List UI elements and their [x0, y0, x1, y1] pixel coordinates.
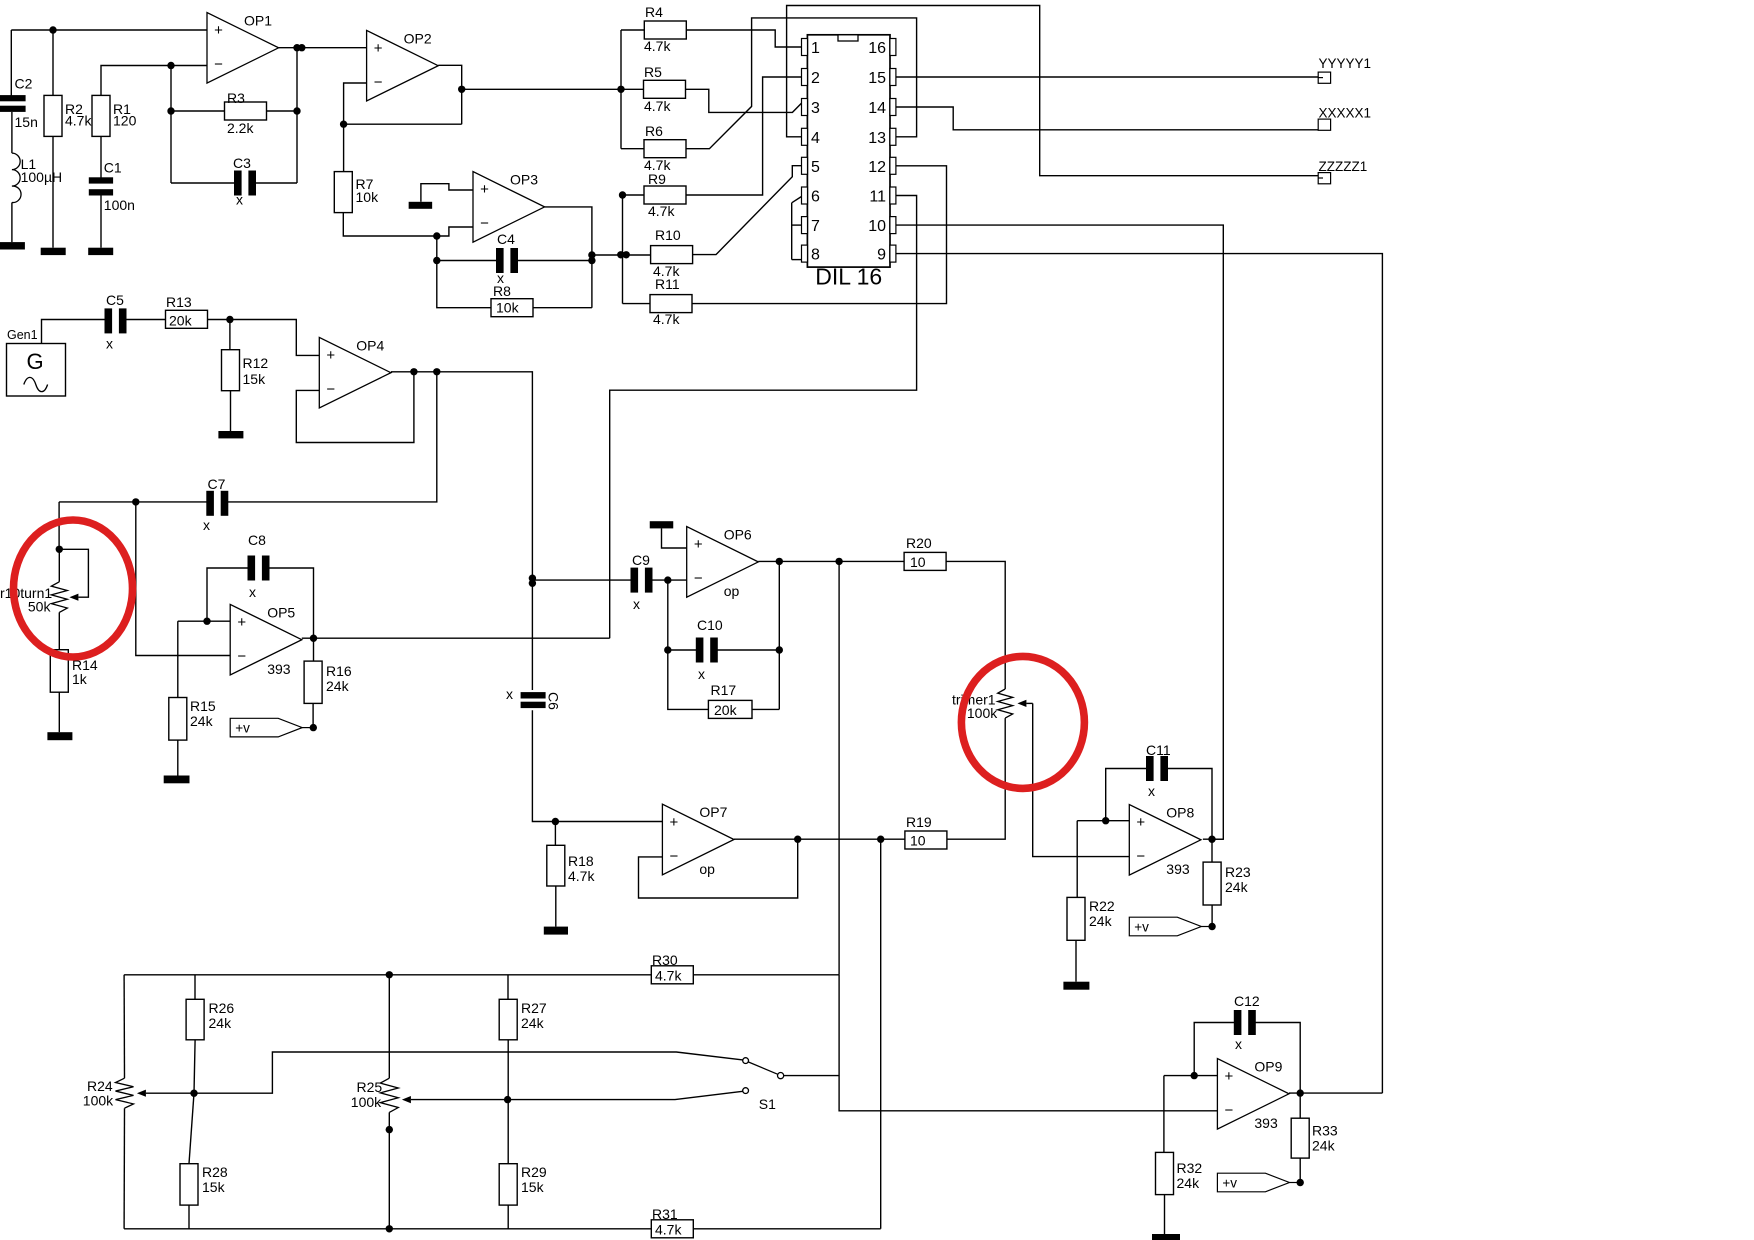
svg-text:Gen1: Gen1 [7, 328, 38, 342]
wire C9 left branch [532, 579, 631, 581]
svg-text:R8: R8 [493, 283, 511, 299]
node junction OP4 out [433, 368, 440, 375]
wire R12 to ground [230, 391, 232, 431]
svg-text:−: − [237, 648, 246, 665]
wire C10 left lead [668, 649, 698, 651]
svg-text:24k: 24k [1312, 1138, 1336, 1154]
wire C2 to L1 [11, 112, 13, 153]
capacitor C11 [1146, 742, 1171, 799]
wire S1 pole down [839, 975, 1217, 1111]
svg-text:20k: 20k [169, 313, 193, 329]
wire R22 top lead [1076, 821, 1078, 898]
svg-text:100k: 100k [351, 1094, 382, 1110]
svg-text:C2: C2 [15, 76, 33, 92]
wire node to R28 [189, 1093, 194, 1164]
svg-text:4.7k: 4.7k [655, 1222, 682, 1238]
svg-text:C3: C3 [233, 155, 251, 171]
wire R15 top lead [177, 621, 179, 697]
node junction OP5 - branch [132, 498, 139, 505]
wire R22 to ground [1075, 940, 1077, 981]
node junction OP2 out tap [458, 86, 465, 93]
node junction R16 +v [310, 724, 317, 731]
svg-text:R3: R3 [227, 90, 245, 106]
svg-text:R16: R16 [326, 663, 352, 679]
svg-text:R20: R20 [906, 535, 932, 551]
wire R8 branch [437, 261, 491, 308]
wire C9 right [652, 579, 687, 581]
node junction R10 left [617, 251, 630, 258]
wire R25 bottom lead [388, 1112, 390, 1228]
node junction R26 R28 [190, 1090, 197, 1097]
wire pin14 to XXXXX1 [896, 107, 1318, 130]
svg-text:C1: C1 [104, 160, 122, 176]
capacitor C4 [496, 231, 518, 286]
wire R2 to ground [52, 136, 54, 247]
wire pin4 net to ZZZZZ1 [787, 6, 1319, 176]
wire R1 bottom to C1 [100, 136, 102, 177]
svg-text:+v: +v [235, 721, 250, 736]
wire L1 to ground [11, 203, 13, 243]
svg-text:10: 10 [868, 218, 886, 235]
node junction R12 top [226, 316, 233, 323]
wire R24 wiper to S1 upper [194, 1052, 743, 1093]
ground under R15 [164, 776, 190, 784]
resistor R9 [644, 171, 686, 219]
svg-text:2.2k: 2.2k [227, 120, 254, 136]
wire OP9 + line [1164, 1075, 1218, 1077]
svg-text:C9: C9 [632, 552, 650, 568]
op-amp OP2 [367, 30, 439, 101]
resistor R33 [1291, 1118, 1338, 1158]
svg-text:15k: 15k [243, 371, 267, 387]
svg-text:4.7k: 4.7k [644, 98, 671, 114]
inductor L1 [12, 153, 62, 202]
svg-text:S1: S1 [759, 1096, 776, 1112]
svg-text:+v: +v [1222, 1176, 1237, 1191]
generator Gen1 [7, 328, 66, 396]
svg-text:12: 12 [868, 159, 886, 176]
wire R32 top lead [1163, 1076, 1165, 1153]
svg-text:op: op [724, 583, 740, 599]
wire pot bracket [59, 549, 88, 597]
wire pins 6 7 8 tie [792, 197, 802, 260]
terminal YYYYY1 [1318, 56, 1371, 83]
svg-text:10: 10 [910, 554, 926, 570]
svg-text:4.7k: 4.7k [568, 868, 595, 884]
wire Gen1 to C5 [42, 320, 106, 344]
wire R16 bottom [312, 703, 314, 727]
op-amp OP5 [230, 604, 302, 677]
wire R25 wiper to S1 lower [508, 1091, 743, 1099]
resistor R1 [92, 95, 137, 136]
svg-text:24k: 24k [521, 1015, 545, 1031]
svg-text:11: 11 [869, 189, 886, 206]
wire R18 top lead [554, 822, 556, 846]
resistor R8 [491, 283, 533, 317]
svg-text:7: 7 [811, 218, 820, 235]
resistor R14 [50, 650, 98, 693]
node junction OP6 - [664, 576, 671, 583]
node junction R23 +v [1208, 923, 1215, 930]
ground under R2 [41, 248, 66, 255]
wire R29 to rail [507, 1205, 509, 1229]
svg-text:R17: R17 [711, 682, 737, 698]
wire R15 to ground [177, 740, 179, 775]
node junction R19 left [877, 836, 884, 843]
node junction OP3 - [433, 232, 440, 239]
svg-text:R6: R6 [645, 123, 663, 139]
terminal ZZZZZ1 [1318, 159, 1367, 184]
wire R8 right lead [533, 307, 592, 309]
wire C10 left branch [667, 580, 669, 650]
resistor R22 [1067, 897, 1115, 940]
capacitor C10 [696, 617, 723, 682]
wire C4 right lead [518, 260, 592, 262]
svg-text:R12: R12 [243, 355, 269, 371]
svg-text:+: + [670, 814, 679, 831]
svg-text:C10: C10 [697, 617, 723, 633]
node junction C10 left [664, 646, 671, 653]
node junction OP1 out [293, 44, 305, 51]
op-amp OP6 [687, 527, 759, 600]
wire R33 top lead [1299, 1093, 1301, 1118]
potentiometer R25 [351, 1078, 411, 1112]
ground under R12 [218, 431, 243, 438]
resistor R32 [1156, 1152, 1203, 1194]
resistor R4 [644, 4, 686, 54]
node junction C11 tap [1102, 817, 1109, 824]
svg-text:OP3: OP3 [510, 172, 538, 188]
svg-text:14: 14 [868, 100, 886, 117]
node junction at C2/R2 top [49, 26, 56, 33]
wire C4 left branch [437, 236, 496, 261]
node junction OP6 fb [776, 558, 783, 565]
svg-text:R15: R15 [190, 698, 216, 714]
capacitor C9 [631, 552, 653, 612]
svg-text:R32: R32 [1177, 1160, 1203, 1176]
op-amp OP3 [473, 172, 545, 243]
svg-text:x: x [698, 666, 705, 682]
node junction R3 left [167, 107, 174, 114]
svg-text:+v: +v [1134, 920, 1149, 935]
svg-text:−: − [1225, 1102, 1234, 1119]
svg-text:R23: R23 [1225, 864, 1251, 880]
svg-text:R18: R18 [568, 853, 594, 869]
wire OP6 out down to R30 [838, 561, 840, 974]
svg-text:24k: 24k [1225, 879, 1249, 895]
potentiometer r10turn1 [0, 549, 78, 614]
wire C11 right branch [1168, 769, 1213, 840]
node junction C9 tap [529, 575, 536, 587]
wire R10 left lead [623, 254, 651, 256]
svg-text:YYYYY1: YYYYY1 [1319, 56, 1372, 71]
svg-text:−: − [374, 74, 383, 91]
wire OP4 feedback [296, 372, 414, 443]
wire C6 to OP7 + [532, 710, 662, 821]
svg-text:100k: 100k [967, 705, 998, 721]
capacitor C6 [506, 686, 562, 710]
capacitor C7 [203, 476, 228, 533]
wire pin11 net [610, 196, 917, 639]
wire R6 to pin13 [686, 18, 917, 149]
resistor R27 [499, 999, 547, 1040]
svg-text:+: + [1225, 1068, 1234, 1085]
wire C5 to R13 [126, 319, 166, 321]
wire R4 left lead [621, 29, 644, 31]
node junction OP8 out [1208, 836, 1215, 843]
wire R26 to node [194, 1040, 195, 1093]
capacitor C8 [248, 532, 270, 600]
wire R33 bottom [1299, 1158, 1301, 1182]
resistor R26 [186, 999, 234, 1040]
svg-text:OP8: OP8 [1166, 805, 1194, 821]
wire OP1 inverting input [171, 65, 207, 67]
wire R30 rail [124, 974, 651, 976]
ground under R22 [1063, 982, 1089, 990]
node junction C4 left [433, 257, 440, 264]
wire R32 to ground [1164, 1195, 1166, 1234]
svg-text:393: 393 [267, 661, 291, 677]
svg-text:x: x [506, 686, 513, 702]
wire R18 to ground [555, 886, 557, 927]
wire inverting node vertical [170, 66, 172, 184]
node junction OP7 out [794, 836, 801, 843]
wire OP5 - vertical [136, 502, 230, 656]
node junction pot top [56, 546, 63, 553]
svg-text:+: + [1136, 814, 1145, 831]
wire R2 top lead [52, 30, 54, 95]
svg-text:13: 13 [868, 130, 886, 147]
wire OP5 output [302, 637, 610, 639]
node junction R25 top [386, 971, 393, 978]
wire R31 right lead [693, 1228, 880, 1230]
ground above OP6 + [650, 521, 674, 528]
ground under R18 [544, 927, 568, 935]
svg-text:2: 2 [811, 70, 820, 87]
wire R9 R11 vertical [622, 195, 624, 304]
wire pin15 to YYYYY1 [896, 76, 1318, 78]
wire OP7 feedback [639, 839, 798, 898]
svg-text:x: x [1235, 1036, 1242, 1052]
node junction R9 left [619, 191, 626, 198]
svg-text:ZZZZZ1: ZZZZZ1 [1319, 159, 1368, 174]
node junction R30 tap [835, 558, 842, 565]
resistor R19 [905, 814, 947, 849]
op-amp OP1 [207, 13, 279, 84]
markup red circle around trimer1 [961, 656, 1084, 788]
resistor R18 [547, 845, 596, 886]
svg-text:OP6: OP6 [724, 527, 752, 543]
svg-text:OP9: OP9 [1254, 1059, 1282, 1075]
wire R19 right to trimmer [947, 718, 1005, 839]
wire pin10 net [896, 225, 1223, 839]
wire R28 to rail [188, 1205, 190, 1229]
node junction R3 right [293, 107, 300, 114]
wire OP5 + line [178, 620, 230, 622]
svg-text:+: + [694, 536, 703, 553]
wire R3 left lead [171, 110, 225, 112]
wire R30 right to S1 pole [693, 974, 839, 976]
svg-text:+: + [237, 614, 246, 631]
resistor R3 [225, 90, 267, 136]
svg-text:6: 6 [811, 189, 820, 206]
resistor R17 [708, 682, 752, 718]
wire OP2 feedback loop [344, 83, 462, 124]
svg-text:100k: 100k [83, 1093, 114, 1109]
wire R17 left branch [668, 650, 709, 709]
svg-text:x: x [236, 192, 243, 208]
resistor R16 [304, 661, 352, 703]
svg-text:15k: 15k [202, 1179, 226, 1195]
svg-text:R28: R28 [202, 1164, 228, 1180]
ground under R32 [1152, 1234, 1180, 1240]
svg-text:C12: C12 [1234, 993, 1260, 1009]
svg-text:x: x [203, 517, 210, 533]
wire OP6 fb vertical [778, 561, 780, 709]
svg-text:C11: C11 [1146, 742, 1171, 758]
svg-text:1k: 1k [72, 671, 88, 687]
wire OP1 out to OP2 + [279, 47, 367, 49]
svg-text:x: x [106, 336, 113, 352]
wire C1 to ground [100, 196, 102, 248]
svg-text:24k: 24k [209, 1015, 233, 1031]
svg-text:10k: 10k [356, 189, 380, 205]
wire OP6 + stub [662, 528, 687, 548]
svg-text:C4: C4 [497, 231, 515, 247]
IC U1 DIL 16 [802, 35, 896, 290]
resistor R7 [334, 172, 379, 213]
svg-text:OP5: OP5 [267, 604, 295, 620]
svg-text:op: op [699, 861, 715, 877]
resistor R29 [499, 1164, 547, 1205]
svg-text:R31: R31 [652, 1206, 678, 1222]
svg-text:−: − [1136, 848, 1145, 865]
wire R13 to OP4 + [208, 320, 320, 356]
wire OP2 out to R4 R5 R6 node [462, 88, 621, 90]
svg-text:+: + [374, 40, 383, 57]
wire C7 left [59, 501, 207, 503]
svg-text:3: 3 [811, 100, 820, 117]
op-amp OP4 [319, 337, 391, 408]
wire R20 right to trimmer top [946, 561, 1005, 689]
svg-text:G: G [26, 349, 43, 374]
svg-text:24k: 24k [326, 678, 350, 694]
svg-text:−: − [214, 56, 223, 73]
node junction R7 top [340, 121, 347, 128]
resistor R10 [651, 227, 693, 279]
svg-text:4.7k: 4.7k [65, 113, 92, 129]
resistor R30 [651, 952, 693, 984]
trimmer trimer1 [952, 689, 1033, 721]
svg-text:R24: R24 [87, 1078, 113, 1094]
node junction R18 top [552, 818, 559, 825]
svg-text:−: − [480, 215, 489, 232]
wire OP7 output to R19 [734, 838, 905, 840]
wire R16 top lead [313, 638, 315, 661]
svg-text:8: 8 [811, 247, 820, 264]
wire R26 top lead [194, 975, 196, 1000]
wire pot to R14 [58, 612, 60, 649]
svg-text:OP4: OP4 [356, 337, 384, 353]
svg-text:20k: 20k [714, 702, 738, 718]
wire R12 top lead [229, 320, 231, 350]
wire C12 left branch [1194, 1023, 1234, 1076]
svg-text:100n: 100n [104, 197, 135, 213]
wire left rail upper [123, 975, 125, 1078]
node junction OP5 out [310, 635, 317, 642]
svg-text:XXXXX1: XXXXX1 [1319, 106, 1372, 121]
svg-text:4.7k: 4.7k [644, 38, 671, 54]
node junction OP9 out [1297, 1089, 1304, 1096]
node junction C10 right [776, 646, 783, 653]
wire C12 right branch [1255, 1023, 1300, 1094]
svg-text:x: x [249, 584, 256, 600]
svg-text:+: + [326, 347, 335, 364]
potentiometer R24 [83, 1078, 146, 1109]
wire OP3 out to R9 R10 R11 node [592, 254, 623, 256]
svg-text:10: 10 [910, 833, 926, 849]
supply flag +v at R16 [230, 718, 313, 737]
svg-text:16: 16 [868, 40, 886, 57]
wire OP9 output [1289, 1092, 1382, 1094]
svg-text:R5: R5 [644, 64, 662, 80]
node junction R27 R29 [504, 1096, 511, 1103]
svg-text:−: − [670, 848, 679, 865]
wire pin9 net [896, 254, 1382, 1094]
resistor R31 [651, 1206, 693, 1238]
wire R24 wiper line [146, 1092, 194, 1094]
svg-text:−: − [694, 570, 703, 587]
op-amp OP7 [662, 804, 734, 877]
node junction R25 bottom rail [386, 1225, 393, 1232]
wire OP8 + line [1077, 820, 1129, 822]
resistor R11 [650, 276, 692, 327]
switch S1 [743, 1058, 784, 1112]
wire R27 top lead [507, 975, 509, 1000]
resistor R20 [904, 535, 946, 570]
svg-text:15n: 15n [15, 114, 38, 130]
node junction OP1 - [167, 62, 174, 69]
node junction C4 right top [588, 251, 595, 258]
wire R9 left lead [623, 194, 645, 196]
wire OP3 inverting stub [437, 227, 473, 236]
svg-text:10k: 10k [496, 300, 520, 316]
svg-text:R11: R11 [655, 276, 680, 292]
svg-text:+: + [480, 181, 489, 198]
supply flag +v at R23 [1129, 917, 1212, 936]
svg-text:4.7k: 4.7k [653, 311, 680, 327]
svg-text:393: 393 [1254, 1115, 1278, 1131]
wire net IN to OP1 + [11, 30, 207, 96]
wire R25 wiper line [411, 1099, 508, 1101]
wire left rail lower [123, 1108, 125, 1229]
svg-text:4.7k: 4.7k [655, 968, 682, 984]
wire R23 bottom [1211, 905, 1213, 927]
wire R25 top lead [388, 975, 390, 1078]
svg-text:x: x [1148, 783, 1155, 799]
node junction C8 left [203, 618, 210, 625]
wire R7 top lead [343, 124, 345, 171]
svg-text:R19: R19 [906, 814, 932, 830]
wire OP6 output [758, 560, 904, 562]
svg-text:R9: R9 [648, 171, 666, 187]
wire OP3 output [545, 207, 592, 308]
wire R23 top lead [1211, 839, 1213, 862]
resistor R15 [169, 698, 216, 741]
ground under R14 [47, 732, 72, 740]
wire C10 right lead [716, 649, 779, 651]
svg-text:R22: R22 [1089, 898, 1115, 914]
